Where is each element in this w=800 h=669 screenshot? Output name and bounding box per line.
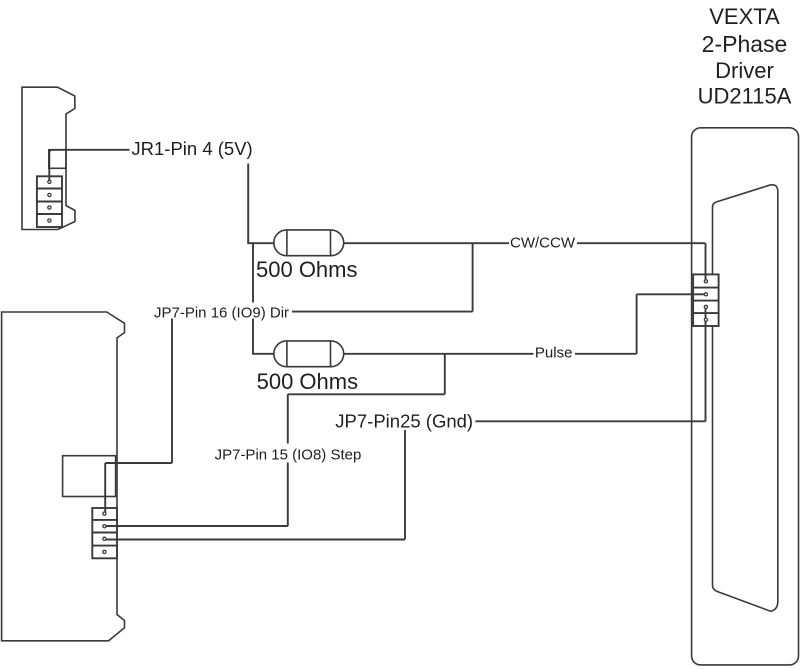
wire: Gnd label right to driver (475, 420, 705, 422)
wire: Gnd riser to driver pin4 and pin3 link (705, 307, 707, 421)
wire: Step branch riser from Pulse net (444, 354, 446, 395)
wire: R1 left lead (247, 242, 273, 244)
connector block on JP7 board (4-pin) (92, 508, 117, 558)
board outline: JP7 board (bottom left) (2, 312, 125, 641)
svg-text:2-Phase: 2-Phase (702, 31, 788, 57)
wire: R2 left lead (252, 353, 274, 355)
pin circles JP7 connector (103, 512, 106, 554)
pin circles driver connector (704, 280, 707, 322)
wire: Gnd into JP7 pin3 (106, 539, 405, 541)
connector footprint rectangle JR1 (49, 150, 66, 169)
svg-text:CW/CCW: CW/CCW (510, 235, 576, 252)
svg-text:Pulse: Pulse (535, 344, 573, 361)
wire: Step drop through label to JP7 pin2 level (287, 394, 289, 526)
wire: Dir drop to JP7 pin1 (104, 463, 106, 514)
wire: R2 right lead to Pulse label (344, 353, 534, 355)
wire: 5V rail down to R2 lead (252, 242, 254, 353)
wire: Dir label drop toward JP7 board (171, 319, 173, 464)
connector block on driver (4-pin) (693, 274, 719, 326)
svg-text:JR1-Pin 4 (5V): JR1-Pin 4 (5V) (131, 138, 252, 159)
D-sub connector shape inside driver (713, 185, 778, 611)
wire: drop to driver pin1 (CW/CCW) (705, 243, 707, 281)
label JP7-Pin 15 (IO8) Step (masks step wire) (211, 444, 365, 464)
wire: Dir branch riser (node on CW net) (472, 243, 474, 311)
wire: Pulse into driver pin2 (637, 293, 706, 295)
label Pulse (534, 344, 575, 361)
svg-text:JP7-Pin 15 (IO8) Step: JP7-Pin 15 (IO8) Step (215, 446, 362, 463)
wire: Step into JP7 pin2 (106, 525, 288, 527)
connector footprint rectangle JP7 (63, 456, 116, 497)
VEXTA driver body outline (692, 128, 799, 665)
svg-text:500 Ohms: 500 Ohms (257, 369, 359, 394)
svg-text:UD2115A: UD2115A (698, 84, 792, 109)
resistor R1 (500 Ohms) (274, 230, 344, 256)
board outline: JR1 breakout board (top left) (22, 87, 75, 229)
wire: drop from 5V label down to R1 lead (247, 164, 249, 244)
svg-text:Driver: Driver (715, 58, 774, 83)
svg-text:JP7-Pin 16 (IO9) Dir: JP7-Pin 16 (IO9) Dir (154, 305, 289, 322)
wire: Dir horizontal into JP7 footprint (105, 462, 172, 464)
label JP7-Pin 16 (IO9) Dir (masks 5V rail) (151, 303, 292, 322)
wire: R1 right lead to CW/CCW label (344, 242, 509, 244)
wire: Gnd label drop on left side (404, 430, 406, 540)
svg-text:VEXTA: VEXTA (709, 4, 780, 29)
wire: Pulse label to riser (575, 353, 637, 355)
wire: Step horizontal (288, 393, 445, 395)
connector block on JR1 board (4-pin) (37, 176, 62, 227)
pin circles JR1 connector (48, 180, 51, 222)
label VEXTA 2-Phase Driver UD2115A (698, 4, 792, 109)
svg-text:500 Ohms: 500 Ohms (256, 257, 358, 282)
resistor R2 (500 Ohms) (274, 341, 344, 367)
wire: JR1 pin1 up to 5V label (49, 150, 129, 182)
wire: CW/CCW label to driver (577, 242, 706, 244)
wire: Dir label to branch riser (291, 311, 473, 313)
svg-text:JP7-Pin25 (Gnd): JP7-Pin25 (Gnd) (335, 411, 473, 432)
wire: Pulse riser up (636, 294, 638, 354)
